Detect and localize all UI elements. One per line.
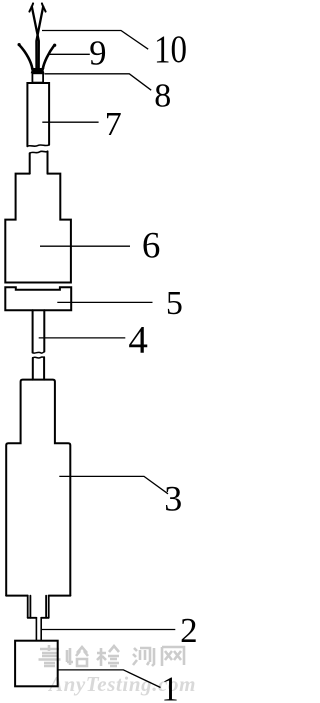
collar (crimp band) (31, 68, 45, 73)
svg-text:2: 2 (180, 611, 198, 650)
tube 4 upper (33, 310, 45, 352)
leader 10 (42, 31, 148, 50)
网 (162, 647, 184, 666)
leader 8 (44, 74, 151, 90)
stem 2 (36, 618, 41, 641)
leader 7 (42, 121, 98, 123)
svg-text:9: 9 (89, 35, 106, 73)
峪 (67, 647, 88, 666)
neck (break lower piece) (30, 151, 48, 153)
leader 2 (41, 629, 175, 631)
测 (133, 648, 154, 666)
svg-text:6: 6 (142, 226, 161, 267)
wire curved right (43, 45, 55, 68)
svg-text:4: 4 (128, 318, 148, 361)
svg-text:10: 10 (154, 28, 187, 71)
svg-text:8: 8 (154, 77, 171, 114)
watermark 嘉峪检测网 (drawn as gray strokes) (39, 645, 185, 666)
cylinder 7 (27, 83, 49, 146)
tube 4 lower (33, 357, 44, 358)
检 (97, 646, 119, 666)
nut 5 (5, 287, 71, 310)
wire left (long, barbed tip) (36, 7, 43, 69)
svg-text:7: 7 (105, 106, 122, 143)
body 6 (stepped block) (5, 174, 71, 283)
svg-text:1: 1 (161, 669, 179, 703)
body 3 (stepped cylinder) (6, 380, 70, 596)
leader 4 (39, 337, 126, 339)
block 1 (15, 641, 58, 687)
leader 5 (57, 301, 152, 303)
嘉 (39, 645, 61, 666)
connector block 8 (32, 73, 43, 82)
leader 6 (40, 245, 130, 247)
leader 3 (59, 476, 168, 493)
svg-text:5: 5 (166, 285, 183, 322)
svg-text:3: 3 (164, 479, 182, 519)
wire curved left (19, 45, 32, 68)
leader 1 (58, 670, 161, 688)
socket walls below 3 (28, 596, 49, 618)
wire right (long, barbed tip) (32, 7, 39, 69)
leader 9 (48, 53, 90, 55)
